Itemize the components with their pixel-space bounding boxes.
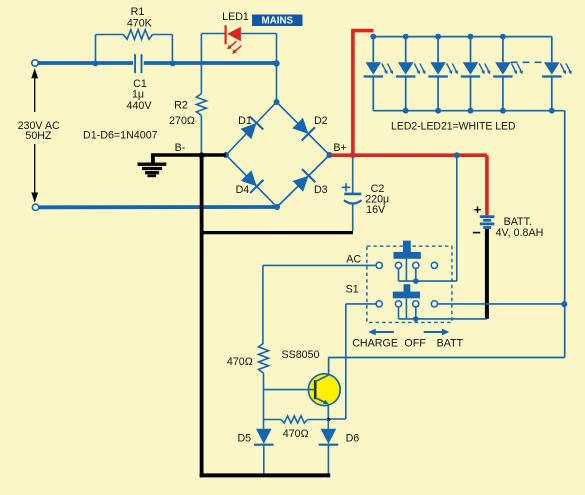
label SS8050 (281, 349, 319, 361)
wire bridge edge B-R (277, 155, 330, 207)
wire collector line (328, 357, 564, 359)
diode D4 (241, 170, 264, 193)
LED4 white LED (428, 37, 458, 111)
label LED2-LED21=WHITE LED (391, 120, 516, 132)
wire R1 top right lead (153, 34, 173, 36)
wire red riser to LED rail (351, 31, 373, 157)
label 230V AC 50HZ (18, 120, 60, 142)
wire S1 row drop (328, 304, 346, 419)
ground symbol (138, 155, 167, 176)
wire red battery drop (485, 155, 489, 215)
wire C2 top lead (352, 155, 354, 193)
switch contact AC row 2 (395, 262, 401, 268)
node LED bottom rail dot 6 (549, 108, 555, 114)
MAINS label box (252, 15, 303, 27)
svg-text:470K: 470K (127, 18, 153, 30)
LED21 white LED (542, 37, 572, 111)
wire 470ohm horizontal left lead (264, 419, 282, 421)
node LED top rail dot 2 (403, 34, 409, 40)
diode D5 (254, 420, 274, 474)
label CHARGE OFF BATT (352, 338, 463, 350)
wire base column (263, 373, 265, 419)
node LED bottom rail dot 5 (500, 108, 506, 114)
svg-text:S1: S1 (346, 284, 359, 296)
svg-text:R2: R2 (174, 100, 188, 112)
switch slider AC row (394, 241, 421, 282)
svg-text:D3: D3 (314, 184, 328, 196)
wire AC row lead (263, 264, 376, 266)
wire B- horizontal (151, 153, 226, 156)
wire S1 row link (399, 307, 487, 319)
label 470ohm vertical (227, 356, 253, 368)
switch contact S1 row 4 (431, 301, 437, 307)
svg-text:470Ω: 470Ω (227, 356, 253, 368)
node B- junction (199, 152, 205, 158)
battery plus sign (474, 206, 481, 213)
wire LED1 left riser (200, 34, 202, 64)
svg-text:LED2-LED21=WHITE LED: LED2-LED21=WHITE LED (391, 120, 516, 132)
label S1 (346, 284, 359, 296)
node LED top rail dot 1 (370, 34, 376, 40)
node LED bottom rail dot 4 (468, 108, 474, 114)
capacitor C1 plates (135, 54, 141, 73)
node junction dot R1 right (170, 61, 176, 67)
label D2 (314, 115, 328, 127)
switch contact AC row 4 (431, 262, 437, 268)
wire R1 right riser (171, 35, 173, 64)
switch contact S1 row 2 (395, 301, 401, 307)
transistor Q1 SS8050 body (308, 374, 340, 406)
svg-text:R1: R1 (131, 6, 145, 18)
230V AC double-headed arrow (31, 68, 38, 202)
node bridge right B+ (327, 152, 333, 158)
diode D6 (319, 420, 339, 474)
node LED top rail dot 4 (468, 34, 474, 40)
wire charge line vertical (456, 155, 458, 281)
wire top line left segment (terminal to C1) (38, 61, 133, 65)
wire bridge edge T-R (277, 102, 330, 155)
svg-text:D6: D6 (346, 432, 360, 444)
wire S1 row right lead (438, 303, 565, 305)
wire 470ohm horizontal right lead (308, 419, 329, 421)
wire B- vertical down (200, 155, 204, 477)
node LED bottom rail dot 3 (435, 108, 441, 114)
svg-text:OFF: OFF (404, 338, 426, 350)
LED array continuation dashes (511, 61, 544, 63)
switch S1 dashed box (367, 246, 452, 322)
node bridge left (223, 152, 229, 158)
diode D3 (293, 169, 316, 192)
wire R2 bottom lead (200, 115, 202, 155)
wire LED1 top left lead (201, 33, 225, 35)
wire collector lead (315, 358, 328, 382)
wire bottom black rail (200, 473, 331, 477)
label C2 220u 16V (365, 183, 389, 216)
resistor R1 (124, 30, 153, 40)
label D6 (346, 432, 360, 444)
switch CHARGE arrow (368, 329, 394, 336)
node right rail tap (561, 301, 567, 307)
battery BATT plates (480, 217, 495, 228)
node emitter junction (327, 418, 331, 422)
wire charge line horizontal (399, 280, 457, 282)
wire AC row drop (262, 265, 264, 343)
wire LED array bottom rail (373, 110, 564, 112)
wire emitter lead (315, 398, 328, 420)
svg-text:4V, 0.8AH: 4V, 0.8AH (496, 227, 544, 239)
label R1 470K (127, 6, 153, 29)
LED5 white LED (461, 37, 491, 111)
svg-text:440V: 440V (127, 100, 153, 112)
node S1 row link dot (413, 316, 419, 322)
LED3 white LED (396, 37, 426, 111)
svg-text:270Ω: 270Ω (169, 115, 195, 127)
svg-text:D5: D5 (237, 432, 251, 444)
svg-text:B+: B+ (333, 142, 346, 154)
LED1 emission arrows (227, 41, 242, 54)
wire bridge edge L-T (226, 102, 277, 155)
label D1-D6=1N4007 (83, 130, 158, 142)
wire LED1 top right lead (241, 33, 277, 35)
switch contact S1 row 1 (376, 301, 382, 307)
node bridge bottom (274, 204, 280, 210)
switch contact AC row 1 (376, 262, 382, 268)
label LED1 (222, 11, 249, 23)
wire top line right segment (C1 to node) (144, 61, 277, 65)
svg-text:470Ω: 470Ω (283, 428, 309, 440)
label AC (346, 254, 361, 266)
switch contact S1 row 3 (413, 301, 419, 307)
wire base lead (264, 389, 316, 391)
wire B- branch to C2 negative (202, 231, 353, 234)
svg-text:16V: 16V (366, 204, 386, 216)
LED1 red indicator diode (226, 25, 241, 44)
label B+ (333, 142, 346, 154)
node LED top rail dot 5 (500, 34, 506, 40)
node junction dot R1 left (92, 61, 98, 67)
label D3 (314, 184, 328, 196)
node LED top rail dot 3 (435, 34, 441, 40)
node AC row link dot (413, 278, 419, 284)
node charge line tap (454, 152, 460, 158)
node junction dot at LED1 right / bridge top feed (273, 60, 279, 66)
label BATT 4V 0.8AH (496, 216, 544, 239)
resistor R2 (196, 94, 206, 116)
AC input terminal bottom (neutral) (32, 204, 38, 210)
wire C2 bottom lead (352, 204, 354, 231)
transistor base bar (314, 380, 317, 399)
wire LED1 right riser (276, 34, 278, 64)
wire LED array top rail (373, 36, 552, 38)
switch BATT arrow (424, 329, 450, 336)
wire AC row link (399, 269, 416, 282)
wire R1 top left lead (96, 34, 124, 36)
wire bottom line (neutral to bridge bottom) (39, 205, 277, 209)
wire battery negative black (485, 229, 489, 319)
switch slider S1 row (393, 284, 420, 319)
label D4 (236, 184, 250, 196)
C2 plus sign (342, 183, 350, 191)
wire bridge top lead (276, 63, 278, 102)
node bridge top (274, 99, 280, 105)
battery minus sign (473, 232, 480, 234)
wire red B+ horizontal (331, 153, 487, 157)
svg-text:SS8050: SS8050 (281, 349, 319, 361)
LED2 white LED (364, 37, 394, 111)
svg-text:B-: B- (175, 142, 186, 154)
node red junction (350, 152, 356, 158)
svg-text:D1-D6=1N4007: D1-D6=1N4007 (83, 130, 158, 142)
label D1 (238, 115, 252, 127)
capacitor C2 plates (344, 194, 362, 204)
label R2 270ohm (169, 100, 195, 127)
svg-text:D4: D4 (236, 184, 250, 196)
svg-text:LED1: LED1 (222, 11, 249, 23)
svg-text:MAINS: MAINS (262, 16, 294, 27)
diode D2 (292, 118, 315, 141)
label B- (175, 142, 186, 154)
resistor 470ohm vertical (259, 343, 269, 373)
svg-text:1μ: 1μ (132, 89, 144, 101)
wire S1 row left lead (346, 303, 376, 305)
label D5 (237, 432, 251, 444)
switch contact AC row 3 (413, 262, 419, 268)
node LED bottom rail dot 2 (403, 108, 409, 114)
svg-text:D1: D1 (238, 115, 252, 127)
svg-text:BATT: BATT (437, 338, 464, 350)
svg-text:D2: D2 (314, 115, 328, 127)
svg-text:50HZ: 50HZ (25, 130, 52, 142)
wire LED rail right drop (564, 111, 566, 358)
wire bridge edge L-B (226, 155, 277, 207)
label 470ohm horizontal (283, 428, 309, 440)
svg-text:AC: AC (346, 254, 361, 266)
wire R1 left riser (95, 35, 97, 64)
svg-text:CHARGE: CHARGE (352, 338, 398, 350)
label C1 1u 440V (127, 78, 153, 112)
LED6 white LED (493, 37, 523, 111)
AC input terminal top (live) (32, 60, 38, 66)
diode D1 (241, 117, 264, 140)
resistor 470ohm horizontal (281, 416, 308, 423)
wire R2 top lead (200, 63, 202, 94)
